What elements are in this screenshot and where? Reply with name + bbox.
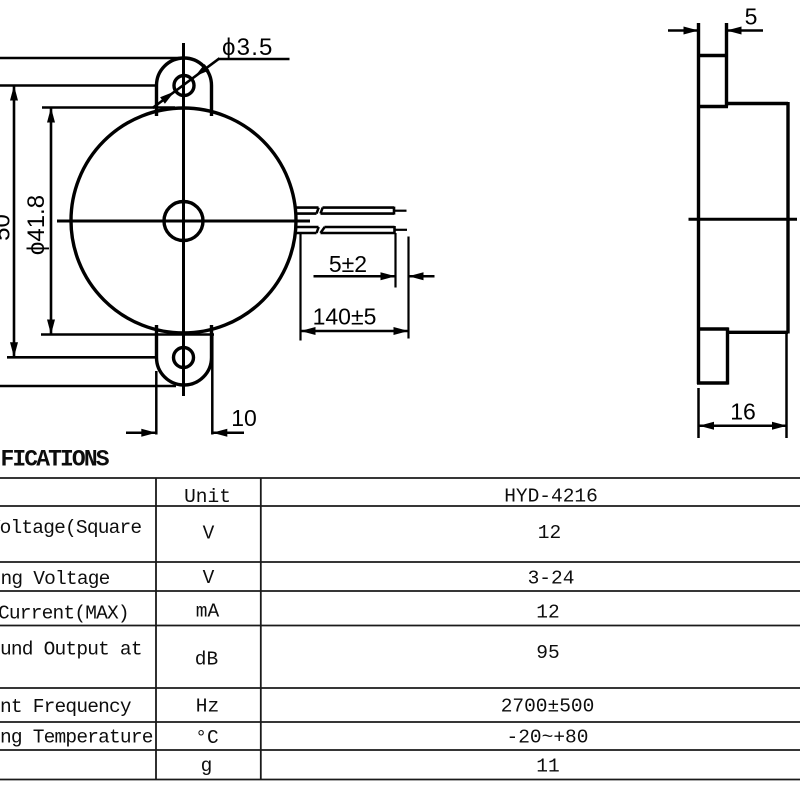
extension line bottom hole center (7, 356, 156, 359)
svg-text:16: 16 (730, 399, 756, 425)
svg-text:140±5: 140±5 (313, 304, 377, 330)
side view left edge (697, 23, 700, 384)
row value 12 (2) (536, 602, 559, 624)
dimension 5 lines and arrows (668, 27, 763, 35)
dimension text 10 (231, 405, 257, 431)
svg-text:3-24: 3-24 (528, 568, 575, 590)
extension line wire root (299, 234, 301, 341)
svg-text:HYD-4216: HYD-4216 (504, 486, 598, 508)
row value 11 (536, 756, 559, 778)
row unit degrees C (195, 727, 218, 749)
svg-text:V: V (203, 567, 215, 589)
side view upper tab right edge (725, 23, 728, 107)
dimension text phi3.5 (222, 34, 274, 61)
svg-text:°C: °C (195, 727, 218, 749)
svg-text:ng Voltage: ng Voltage (1, 568, 110, 590)
svg-text:10: 10 (231, 405, 257, 431)
row unit mA (196, 601, 220, 623)
svg-text:5±2: 5±2 (329, 251, 367, 277)
extension line top hole center (0, 84, 156, 87)
vertical centerline (182, 43, 185, 396)
extension line wire tip end (407, 237, 409, 339)
row label Current(MAX) (cropped) (0, 603, 129, 625)
table horizontal line 6 (0, 687, 800, 689)
bottom mounting hole (174, 348, 194, 368)
svg-text:und Output at: und Output at (0, 639, 142, 661)
upper lead wire long segment (321, 207, 395, 215)
row value 12 (538, 522, 561, 544)
svg-text:50: 50 (0, 214, 16, 241)
horizontal centerline (57, 220, 310, 223)
table vertical line 1 (155, 478, 157, 780)
dimension text phi41.8 (rotated) (23, 195, 50, 255)
table horizontal line 3 (0, 561, 800, 563)
table horizontal line 4 (0, 590, 800, 592)
extension line tab top (cropped dim) (0, 57, 180, 60)
dimension phi3.5 leader (153, 58, 290, 108)
row value 2700+-500 (501, 696, 595, 718)
extension line circle top (42, 106, 175, 109)
side view body right edge (786, 102, 789, 334)
row label ng Voltage (cropped) (1, 568, 110, 590)
extension line tab right side (211, 334, 214, 435)
svg-text:11: 11 (536, 756, 559, 778)
svg-text:Current(MAX): Current(MAX) (0, 603, 129, 625)
dimension text 50 (rotated, cropped) (0, 214, 16, 241)
svg-text:Unit: Unit (184, 486, 231, 508)
table horizontal line 9 (0, 779, 800, 781)
dimension 5+-2 lines and arrows (314, 272, 435, 280)
side view lower tab bottom edge (697, 381, 729, 384)
row unit Hz (196, 696, 219, 718)
svg-text:12: 12 (536, 602, 559, 624)
row value 95 (536, 642, 559, 664)
row value -20to+80 (507, 727, 589, 749)
svg-text:ϕ41.8: ϕ41.8 (23, 195, 50, 255)
svg-text:ng Temperature: ng Temperature (0, 727, 153, 749)
row unit dB (195, 649, 218, 671)
extension line tab left side (155, 371, 158, 435)
svg-text:12: 12 (538, 522, 561, 544)
table horizontal line 2 (0, 505, 800, 507)
extension line circle bottom (41, 333, 214, 336)
row value 3-24 (528, 568, 575, 590)
svg-text:g: g (201, 755, 213, 777)
upper lead wire segment near body (295, 208, 319, 214)
dimension text 5+-2 (329, 251, 367, 277)
svg-text:Voltage(Square: Voltage(Square (0, 517, 141, 539)
dimension text 16 (730, 399, 756, 425)
side view body bottom edge (727, 331, 789, 334)
buzzer body main circle (71, 108, 296, 333)
top mounting hole (174, 76, 194, 96)
top mounting tab (157, 58, 212, 116)
table header cell HYD-4216 (504, 486, 598, 508)
svg-text:5: 5 (745, 4, 758, 30)
row unit V (203, 523, 215, 545)
row unit V (2) (203, 567, 215, 589)
table horizontal line 5 (0, 625, 800, 627)
row label Voltage(Square (cropped) (0, 517, 141, 539)
extension line wire lead end (394, 233, 396, 288)
side view body top edge (727, 102, 789, 105)
svg-text:ϕ3.5: ϕ3.5 (222, 34, 274, 61)
extension line side right bottom (785, 334, 788, 438)
lower lead wire long segment (321, 226, 395, 234)
heading SPECIFICATIONS (cropped) (1, 447, 110, 473)
svg-text:V: V (203, 523, 215, 545)
lower lead wire segment near body (295, 227, 319, 233)
dimension 10 lines and arrows (126, 429, 244, 437)
table horizontal line 8 (0, 749, 800, 751)
bottom mounting tab (157, 325, 212, 385)
table horizontal line 1 (0, 477, 800, 479)
dimension text 140+-5 (313, 304, 377, 330)
upper wire end stub (394, 210, 407, 212)
row label und Output at (cropped) (0, 639, 142, 661)
lower wire end stub (395, 229, 408, 231)
side view lower tab right edge (726, 328, 729, 385)
dimension phi41.8 line and arrows (47, 108, 55, 335)
table header cell Unit (184, 486, 231, 508)
svg-text:2700±500: 2700±500 (501, 696, 595, 718)
row label nt Frequency (cropped) (0, 696, 132, 718)
side view upper tab bottom edge (697, 105, 728, 108)
row label ng Temperature (cropped) (0, 727, 153, 749)
table horizontal line 7 (0, 721, 800, 723)
svg-text:FICATIONS: FICATIONS (1, 447, 110, 473)
extension line tab bottom (cropped dim) (0, 385, 176, 388)
svg-text:mA: mA (196, 601, 220, 623)
svg-text:-20~+80: -20~+80 (507, 727, 589, 749)
svg-text:95: 95 (536, 642, 559, 664)
dimension 16 line and arrows (699, 422, 787, 430)
side view centerline (689, 218, 798, 221)
svg-text:Hz: Hz (196, 696, 219, 718)
side view top edge (697, 54, 728, 57)
row unit g (201, 755, 213, 777)
table vertical line 2 (260, 478, 262, 780)
svg-text:dB: dB (195, 649, 218, 671)
dimension text 5 (745, 4, 758, 30)
dimension 140+-5 line and arrows (301, 327, 409, 335)
svg-text:nt Frequency: nt Frequency (0, 696, 132, 718)
center sound hole (164, 202, 203, 241)
extension line side left bottom (697, 388, 700, 438)
dimension 50 line and arrows (10, 86, 18, 358)
side view lower tab top edge (697, 327, 729, 330)
